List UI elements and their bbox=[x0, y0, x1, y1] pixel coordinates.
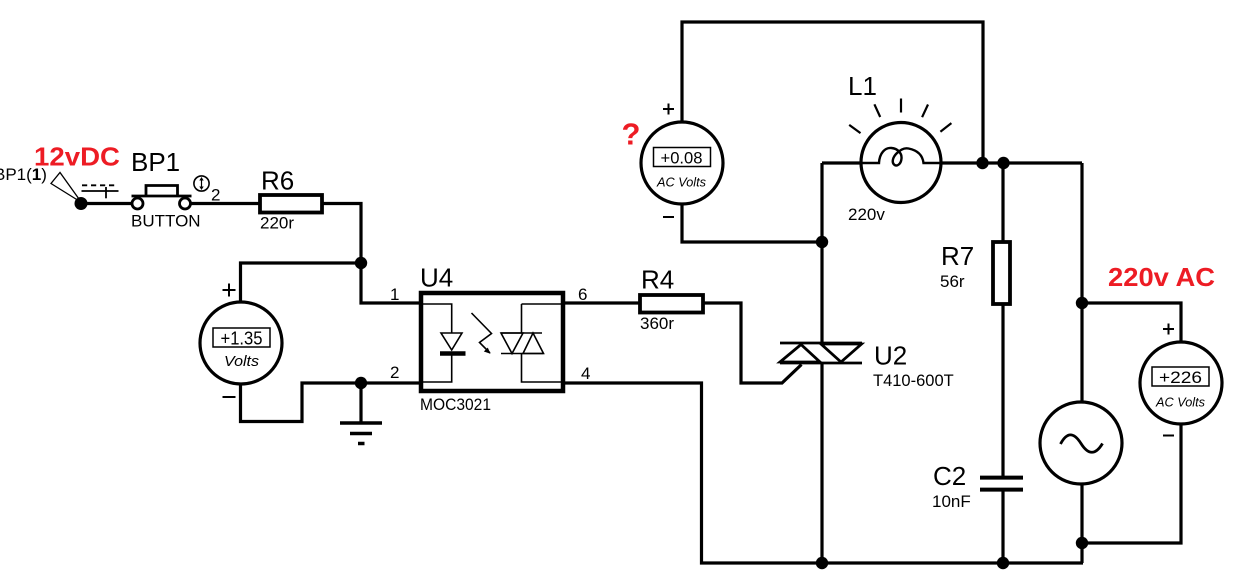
svg-text:R6: R6 bbox=[261, 166, 294, 196]
svg-text:+1.35: +1.35 bbox=[221, 329, 263, 349]
svg-text:360r: 360r bbox=[640, 314, 674, 333]
svg-text:BP1: BP1 bbox=[131, 147, 180, 177]
svg-text:2: 2 bbox=[211, 186, 220, 205]
svg-text:+0.08: +0.08 bbox=[661, 149, 703, 168]
svg-text:U4: U4 bbox=[420, 263, 453, 293]
svg-text:L1: L1 bbox=[848, 71, 877, 101]
svg-text:R7: R7 bbox=[941, 241, 974, 271]
svg-text:2: 2 bbox=[390, 363, 399, 382]
svg-text:R4: R4 bbox=[641, 265, 674, 295]
svg-text:220r: 220r bbox=[260, 214, 294, 233]
svg-text:C2: C2 bbox=[933, 461, 966, 491]
svg-text:T410-600T: T410-600T bbox=[873, 372, 954, 390]
svg-text:220v AC: 220v AC bbox=[1108, 262, 1215, 292]
svg-text:MOC3021: MOC3021 bbox=[420, 395, 491, 414]
svg-text:1: 1 bbox=[390, 285, 399, 304]
svg-text:AC Volts: AC Volts bbox=[656, 175, 706, 190]
svg-text:12vDC: 12vDC bbox=[34, 142, 120, 172]
svg-text:+226: +226 bbox=[1159, 368, 1202, 387]
svg-text:Volts: Volts bbox=[224, 354, 259, 370]
svg-text:56r: 56r bbox=[940, 272, 965, 291]
svg-text:220v: 220v bbox=[848, 205, 885, 224]
svg-text:4: 4 bbox=[581, 364, 590, 383]
svg-text:6: 6 bbox=[578, 285, 587, 304]
svg-text:U2: U2 bbox=[874, 341, 907, 371]
svg-text:BUTTON: BUTTON bbox=[131, 212, 201, 231]
svg-text:10nF: 10nF bbox=[932, 492, 971, 511]
svg-text:AC Volts: AC Volts bbox=[1155, 395, 1205, 410]
svg-text:?: ? bbox=[622, 117, 641, 152]
